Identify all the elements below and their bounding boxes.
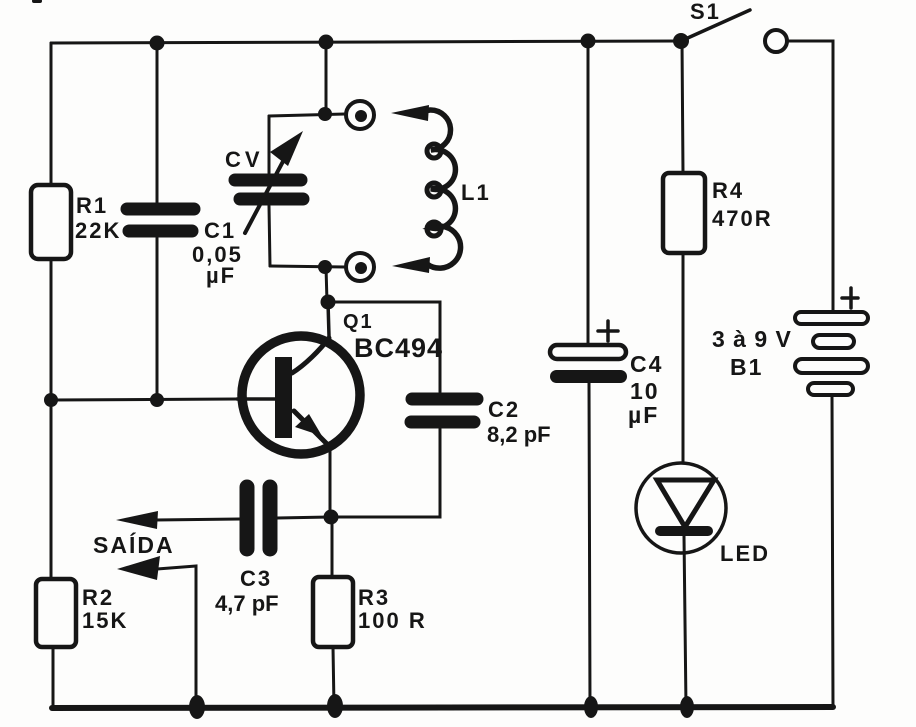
svg-text:L1: L1 <box>461 180 491 205</box>
wire left rail upper <box>50 43 53 185</box>
resistor R3 <box>313 577 353 647</box>
wire C1 branch upper <box>156 42 159 203</box>
svg-text:R2: R2 <box>82 585 114 610</box>
svg-text:15K: 15K <box>82 608 128 633</box>
svg-text:470R: 470R <box>712 206 773 231</box>
node tank bottom <box>318 260 332 274</box>
CV adjustment arrow <box>245 131 303 233</box>
wire emitter down <box>329 447 332 517</box>
svg-text:R3: R3 <box>358 585 390 610</box>
terminal top (coil tap) <box>346 101 374 129</box>
wire C1 branch lower <box>156 238 159 400</box>
node tank top <box>318 107 332 121</box>
svg-text:C2: C2 <box>488 397 520 422</box>
capacitor CV <box>235 180 303 199</box>
transistor Q1 <box>237 336 360 454</box>
svg-text:R1: R1 <box>76 193 108 218</box>
wire emitter node to R3 <box>331 517 334 577</box>
node top rail / C1 <box>150 36 165 51</box>
wire tank bottom to collector node <box>326 267 327 302</box>
wire C3 to emitter node <box>277 517 330 518</box>
svg-text:Q1: Q1 <box>343 311 374 333</box>
node collector <box>321 295 336 310</box>
svg-text:C3: C3 <box>240 566 272 591</box>
wire R3 to bottom rail <box>333 647 334 707</box>
wire R4 branch upper <box>682 41 683 173</box>
node bottom rail R3 <box>327 694 343 718</box>
capacitor C4 <box>550 345 627 383</box>
svg-text:CV: CV <box>225 147 264 172</box>
inductor L1 <box>391 105 461 273</box>
node bottom rail output <box>189 695 205 719</box>
svg-text:B1: B1 <box>730 354 763 380</box>
resistor R1 <box>31 185 71 259</box>
terminal bottom (coil tap) <box>346 253 374 281</box>
svg-text:C1: C1 <box>204 218 236 243</box>
switch S1 <box>681 10 787 52</box>
output arrow 1 <box>116 511 240 529</box>
wire tank top stub <box>269 114 345 116</box>
svg-text:4,7 pF: 4,7 pF <box>215 591 279 616</box>
wire C4 branch lower <box>589 383 590 707</box>
wire tank bottom stub <box>270 266 345 267</box>
node top rail / tank <box>319 35 334 50</box>
svg-text:C4: C4 <box>630 351 663 377</box>
wire top rail <box>51 41 681 43</box>
LED D1 <box>636 463 726 553</box>
wire battery to bottom rail <box>832 395 833 707</box>
wire C4 branch upper <box>587 41 590 345</box>
node top rail / C4 <box>581 34 596 49</box>
svg-text:LED: LED <box>720 541 770 566</box>
wire left rail middle <box>50 259 53 579</box>
wire CV branch bottom <box>269 206 270 266</box>
svg-text:S1: S1 <box>690 0 721 24</box>
node bottom rail C4 <box>584 696 598 718</box>
svg-text:8,2 pF: 8,2 pF <box>487 422 551 447</box>
capacitor C1 <box>127 209 194 231</box>
node top rail / S1 <box>673 33 689 49</box>
wire LED to bottom rail <box>684 536 686 707</box>
output arrow 2 <box>117 556 196 707</box>
node emitter <box>324 510 339 525</box>
battery B1 plus sign <box>842 288 858 308</box>
resistor R2 <box>36 579 76 647</box>
svg-text:3 à 9 V: 3 à 9 V <box>712 326 792 352</box>
node base C1 <box>150 393 164 407</box>
wire S1 to battery <box>787 41 833 312</box>
svg-text:10: 10 <box>630 378 660 404</box>
svg-text:22K: 22K <box>75 218 121 243</box>
wire bottom rail <box>52 707 833 708</box>
wire collector to node <box>328 302 329 336</box>
svg-text:R4: R4 <box>712 178 744 203</box>
stray mark top edge <box>34 0 40 3</box>
wire base rail <box>51 399 237 400</box>
wire left rail lower <box>52 646 55 708</box>
wire C2 branch lower <box>337 429 440 517</box>
svg-text:µF: µF <box>628 402 659 428</box>
svg-text:SAÍDA: SAÍDA <box>93 531 175 558</box>
wire R4 to LED <box>682 253 685 480</box>
battery B1 <box>795 312 868 395</box>
node base left <box>44 393 58 407</box>
node bottom rail LED <box>680 696 694 718</box>
wire tank feed from top rail <box>325 42 328 114</box>
svg-text:BC494: BC494 <box>354 333 443 363</box>
capacitor C2 <box>411 399 477 422</box>
capacitor C3 <box>247 487 270 549</box>
svg-text:100 R: 100 R <box>358 608 427 633</box>
svg-text:µF: µF <box>206 263 236 288</box>
resistor R4 <box>663 173 705 253</box>
capacitor C4 plus sign <box>598 321 618 341</box>
wire collector node to C2 branch <box>328 302 440 392</box>
wire CV branch top <box>268 116 271 173</box>
